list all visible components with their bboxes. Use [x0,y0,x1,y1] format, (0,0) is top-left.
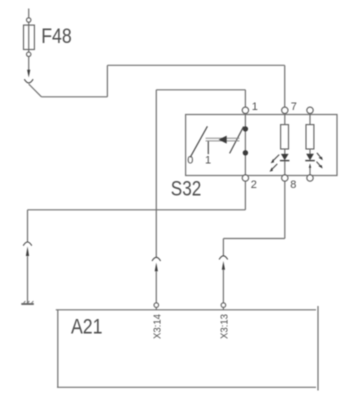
svg-text:8: 8 [290,179,296,191]
svg-text:0: 0 [187,154,193,166]
svg-text:F48: F48 [41,25,71,48]
svg-text:2: 2 [251,179,257,191]
svg-text:A21: A21 [71,316,103,339]
svg-text:S32: S32 [171,178,202,201]
svg-text:7: 7 [291,101,297,113]
svg-text:X3:13: X3:13 [219,314,231,339]
svg-text:X3:14: X3:14 [151,314,163,339]
svg-text:1: 1 [252,101,258,113]
svg-text:1: 1 [205,154,211,166]
